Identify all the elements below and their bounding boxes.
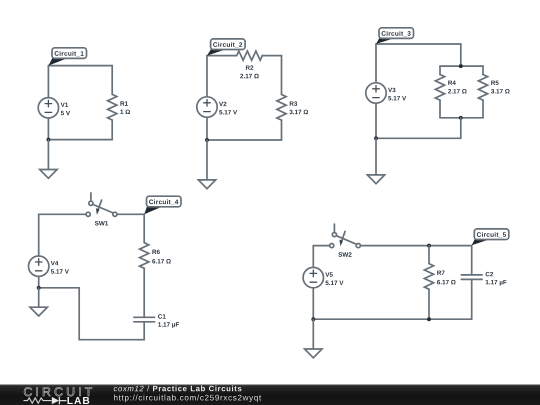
wire left top lead circuit 3 [375, 44, 377, 83]
resistor R3 [277, 95, 308, 121]
resistor R4 [435, 75, 466, 101]
wire ground lead circuit 4 [38, 288, 40, 307]
wire V5 bottom lead circuit 5 [312, 288, 314, 319]
wire bottom of circuit 5 [313, 318, 471, 320]
wire ground lead circuit 5 [312, 319, 314, 349]
node flag Circuit_4 [144, 196, 181, 214]
logo CIRCUIT wordmark [24, 387, 92, 396]
ground circuit 2 [198, 180, 215, 189]
wire parallel top bar circuit 3 [440, 65, 483, 67]
wire center down from parallel bottom circuit 3 [460, 118, 462, 139]
voltage source V3 [366, 83, 406, 103]
wire left bottom lead circuit 3 [375, 103, 377, 138]
ground circuit 5 [305, 349, 322, 358]
wire parallel bottom bar circuit 3 [440, 117, 483, 119]
wire R5 top lead [482, 66, 484, 74]
wire V4 up lead circuit 4 [38, 214, 40, 256]
wire top of circuit 3 [376, 43, 461, 45]
voltage source V4 [29, 256, 69, 276]
switch SW1 [86, 193, 117, 226]
wire top right of circuit 2 [262, 55, 281, 57]
wire below C2 circuit 5 [471, 279, 473, 319]
footer title text [114, 386, 242, 392]
wire below C1 circuit 4 [143, 322, 145, 340]
wire R6 to C1 circuit 4 [143, 268, 145, 317]
capacitor C2 [461, 272, 506, 286]
resistor R2 [237, 51, 263, 78]
wire R7 top lead circuit 5 [428, 246, 430, 264]
node junction parallel top circuit 3 [459, 64, 463, 68]
node junction circuit 4 [37, 286, 41, 290]
wire right top lead circuit 2 [281, 56, 283, 95]
wire bottom of circuit 1 [48, 139, 112, 141]
wire V4 bottom lead circuit 4 [38, 276, 40, 287]
wire top left of circuit 2 [207, 55, 237, 57]
voltage source V5 [303, 267, 343, 287]
node flag Circuit_3 [376, 28, 414, 44]
wire R4 top lead [439, 66, 441, 74]
wire left bottom lead circuit 1 [47, 118, 49, 140]
wire corner down to R6 circuit 4 [143, 214, 145, 242]
switch SW2 [330, 224, 361, 257]
wire bottom of circuit 3 [376, 137, 461, 139]
wire switch to corner circuit 5 [360, 245, 471, 247]
wire right bottom lead circuit 2 [281, 120, 283, 140]
logo resistor zigzag [24, 398, 52, 403]
wire right bottom lead circuit 1 [111, 120, 113, 140]
node junction parallel bottom circuit 3 [459, 116, 463, 120]
wire bottom return circuit 4 [39, 288, 145, 340]
capacitor C1 [134, 314, 179, 328]
wire corner down to C2 circuit 5 [471, 246, 473, 275]
footer bar [0, 385, 540, 405]
wire R5 bottom lead [482, 100, 484, 118]
node flag Circuit_1 [48, 48, 86, 66]
voltage source V2 [197, 97, 237, 117]
logo LAB text [67, 397, 89, 404]
resistor R6 [140, 243, 171, 269]
wire top of circuit 1 [48, 65, 112, 67]
ground circuit 3 [367, 175, 384, 184]
wire ground lead circuit 2 [206, 140, 208, 180]
wire top to switch circuit 5 [313, 245, 329, 247]
resistor R7 [424, 264, 455, 290]
wire R7 bottom lead circuit 5 [428, 289, 430, 319]
node junction circuit 2 [205, 138, 209, 142]
wire switch to corner circuit 4 [117, 213, 144, 215]
node junction circuit 1 [46, 138, 50, 142]
wire V5 up lead circuit 5 [312, 246, 314, 268]
wire left top lead circuit 1 [47, 66, 49, 98]
node junction R7 bottom circuit 5 [427, 317, 431, 321]
ground circuit 4 [30, 307, 47, 316]
node flag Circuit_5 [472, 229, 509, 245]
wire ground lead circuit 3 [375, 138, 377, 175]
wire R4 bottom lead [439, 100, 441, 118]
footer url text [114, 395, 261, 403]
node junction circuit 3 [374, 136, 378, 140]
node junction R7 top circuit 5 [427, 244, 431, 248]
wire left top lead circuit 2 [206, 56, 208, 97]
resistor R5 [478, 75, 509, 101]
wire ground lead circuit 1 [47, 140, 49, 170]
wire right top lead circuit 1 [111, 66, 113, 95]
ground circuit 1 [40, 170, 57, 179]
logo diode cathode [59, 397, 66, 404]
node junction circuit 5 [311, 317, 315, 321]
logo diode [52, 397, 59, 404]
node flag Circuit_2 [207, 39, 245, 56]
resistor R1 [108, 94, 130, 120]
wire center down to parallel top bar circuit 3 [460, 44, 462, 66]
wire top to switch circuit 4 [39, 213, 86, 215]
wire bottom of circuit 2 [207, 139, 282, 141]
wire left bottom lead circuit 2 [206, 117, 208, 140]
voltage source V1 [38, 98, 70, 118]
